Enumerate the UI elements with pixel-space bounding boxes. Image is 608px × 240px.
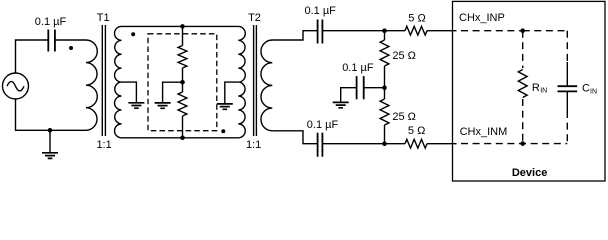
T1 primary polarity dot: [69, 46, 73, 50]
wire: 25 Ohm to bottom node: [384, 125, 386, 144]
wire: source top to C1: [16, 40, 49, 73]
transformer T1 core: [101, 25, 103, 136]
resistor 5 Ohm (top): [405, 26, 427, 35]
wire: dashed RIN top lead: [522, 31, 524, 68]
node: top network junction: [382, 28, 387, 33]
svg-text:Device: Device: [512, 167, 547, 179]
wire: middle bottom rail: [122, 137, 239, 139]
svg-text:0.1 µF: 0.1 µF: [342, 62, 374, 74]
node: bottom-left junction: [48, 128, 53, 133]
svg-text:25 Ω: 25 Ω: [392, 111, 416, 123]
dashed termination box: [148, 34, 217, 131]
capacitor CIN: [566, 62, 568, 86]
capacitor C3 0.1 uF (bottom): [317, 133, 319, 157]
svg-text:0.1 µF: 0.1 µF: [307, 119, 339, 131]
capacitor C2 0.1 uF (top): [317, 20, 319, 44]
resistor 25 Ohm (upper): [380, 40, 389, 66]
ground (termination): [155, 103, 171, 108]
node: top rail junction: [180, 24, 185, 29]
wire: dashed INP rail: [461, 30, 523, 32]
ground (C4): [333, 102, 349, 107]
wire: middle top rail: [122, 25, 239, 27]
svg-text:R: R: [532, 82, 540, 94]
device box: [453, 1, 606, 181]
svg-text:T2: T2: [248, 12, 261, 24]
transformer T2 primary winding: [238, 26, 245, 137]
wire: dashed RIN bottom lead: [522, 99, 524, 144]
T1 secondary polarity dot: [131, 32, 135, 36]
svg-text:C: C: [582, 83, 590, 95]
AC source V1: [3, 73, 29, 99]
svg-text:CHx_INM: CHx_INM: [460, 126, 508, 138]
svg-text:5 Ω: 5 Ω: [408, 13, 425, 25]
node: bottom network junction: [382, 141, 387, 146]
wire: dashed to CIN top: [523, 30, 568, 32]
svg-text:T1: T1: [97, 12, 110, 24]
node: mid network junction: [382, 85, 387, 90]
svg-text:IN: IN: [540, 88, 547, 95]
wire: C2 to top node: [322, 30, 405, 32]
ground (source): [49, 130, 51, 153]
node: INP internal junction: [520, 28, 525, 33]
wire: between termination resistors: [182, 68, 184, 92]
svg-text:0.1 µF: 0.1 µF: [35, 16, 67, 28]
node: bottom rail junction: [180, 136, 185, 141]
node: termination midpoint: [180, 80, 185, 85]
wire: C1 to T1 primary: [55, 39, 86, 41]
capacitor C4 0.1 uF (mid shunt): [363, 76, 365, 99]
wire: resistor chain top: [182, 26, 184, 45]
svg-text:5 Ω: 5 Ω: [408, 125, 425, 137]
svg-text:25 Ω: 25 Ω: [392, 50, 416, 62]
resistor RIN: [518, 70, 527, 98]
wire: dashed INM rail: [461, 143, 567, 145]
wire: source bottom rail: [16, 99, 87, 130]
svg-text:1:1: 1:1: [246, 139, 261, 151]
T2 primary polarity dot: [221, 129, 225, 133]
wire: dashed CIN top lead: [566, 31, 568, 62]
wire: mid node to C4: [364, 87, 385, 89]
svg-text:0.1 µF: 0.1 µF: [304, 5, 336, 17]
resistor 25 Ohm (lower): [380, 99, 389, 125]
svg-text:CHx_INP: CHx_INP: [459, 12, 505, 24]
transformer T2 secondary winding: [261, 40, 272, 131]
transformer T1 primary winding: [86, 40, 97, 130]
wire: termination midpoint tap: [163, 82, 183, 103]
resistor (termination upper): [178, 46, 187, 69]
node: INM internal junction: [520, 141, 525, 146]
wire: 5 Ohm to device CHx_INM: [427, 143, 457, 145]
wire: T2 secondary bottom lead: [272, 131, 317, 144]
wire: C4 to ground: [341, 88, 357, 103]
wire: 25 Ohm to mid node: [384, 66, 386, 99]
ground (T2 center tap): [217, 104, 233, 109]
wire: T2 secondary top lead: [272, 31, 317, 40]
wire: 5 Ohm to device CHx_INP: [427, 30, 457, 32]
transformer T2 core: [253, 25, 255, 136]
wire: C3 to bottom node: [322, 143, 405, 145]
resistor 5 Ohm (bottom): [405, 139, 427, 148]
wire: resistor chain bottom: [182, 116, 184, 138]
transformer T1 secondary winding: [115, 26, 122, 137]
wire: T1 secondary center tap: [122, 82, 137, 103]
capacitor C1 0.1 uF: [47, 30, 49, 52]
svg-text:IN: IN: [590, 89, 597, 96]
wire: T2 primary center tap: [225, 82, 239, 104]
wire: dashed CIN bottom lead: [566, 111, 568, 144]
wire: top node down: [384, 31, 386, 40]
svg-text:1:1: 1:1: [96, 139, 111, 151]
resistor (termination lower): [178, 92, 187, 116]
ground (T1 center tap): [128, 103, 144, 108]
